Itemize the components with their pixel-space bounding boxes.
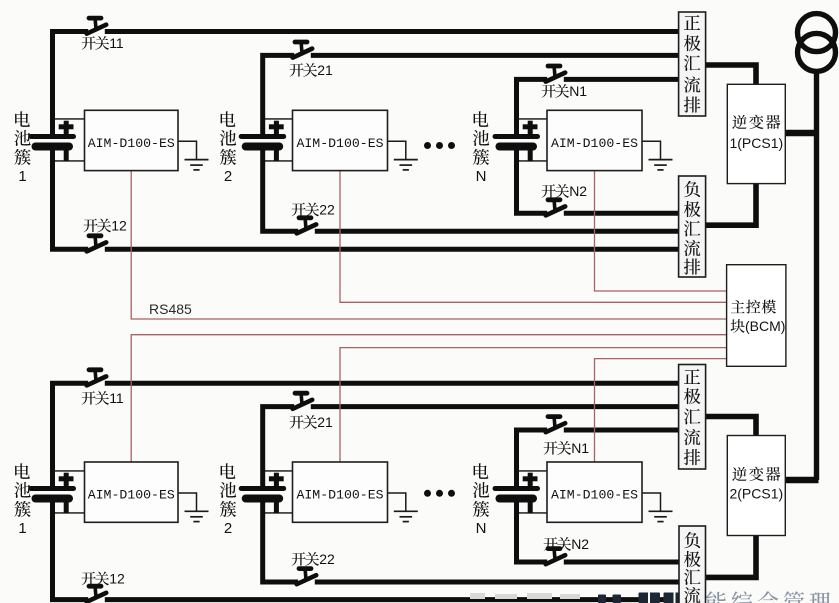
ellipsis dots (more clusters, bottom bank) (424, 490, 455, 497)
switch 开关N2 (bottom bank) (546, 549, 566, 565)
switch 开关N1 (bottom bank) (546, 417, 566, 433)
svg-text:11: 11 (109, 35, 124, 51)
wire negative rail battery cluster NA, 开关N2 row to 负极汇流排 (517, 148, 679, 213)
switch 开关21 (bottom bank) (293, 393, 313, 409)
svg-text:11: 11 (109, 390, 124, 406)
svg-text:AIM-D100-ES: AIM-D100-ES (88, 488, 175, 503)
switch 开关22 (bottom bank) (297, 569, 317, 585)
insulation monitor U2B AIM-D100-ES (293, 462, 388, 522)
battery 电池簇2B (241, 471, 295, 513)
svg-text:N1: N1 (571, 440, 589, 456)
wire positive rail battery cluster 2A, 开关21 row to 正极汇流排 (263, 55, 679, 136)
svg-text:2: 2 (224, 520, 232, 537)
battery 电池簇1B (31, 471, 85, 513)
svg-text:12: 12 (109, 571, 125, 587)
ground (AIM 2B) (387, 493, 418, 522)
label 电池簇2 (bottom bank) (220, 463, 236, 537)
grid transformer (two-winding symbol) (798, 14, 836, 72)
wire 逆变器1 AC output to grid riser (785, 130, 817, 136)
wire negative rail battery cluster 2A, 开关22 row to 负极汇流排 (263, 148, 679, 231)
RS485 wire AIM-D100-ES NA to BCM (595, 171, 727, 291)
svg-text:22: 22 (319, 551, 335, 567)
wire positive rail battery cluster 1A, 开关11 row to 正极汇流排 (53, 32, 679, 137)
wire 逆变器2 AC output to grid riser (785, 477, 819, 483)
svg-text:N1: N1 (569, 83, 587, 99)
wire negative rail battery cluster NB, lower 开关N2 row to 负极汇流排 (517, 500, 679, 562)
switch 开关22 (top bank) (297, 218, 317, 234)
svg-text:1: 1 (18, 520, 26, 537)
svg-text:N: N (476, 168, 487, 185)
label 开关11 (bottom bank) (82, 390, 124, 406)
wire negative rail battery cluster 1B, lower 开关12 row to 负极汇流排 (53, 500, 679, 599)
switch 开关11 (bottom bank) (87, 370, 107, 386)
wire positive rail battery cluster NB, lower 开关N1 row to 正极汇流排 (517, 430, 679, 489)
wire positive rail battery cluster NA, 开关N1 row to 正极汇流排 (517, 79, 679, 136)
ground (AIM 1B) (178, 493, 209, 522)
switch 开关21 (top bank) (293, 42, 313, 58)
wire 逆变器1 output to 负极汇流排A (706, 183, 756, 225)
battery 电池簇1A (31, 119, 85, 161)
svg-text:AIM-D100-ES: AIM-D100-ES (296, 488, 383, 503)
RS485 wire AIM-D100-ES NB to BCM (595, 359, 727, 462)
label 开关N2 (top bank) (542, 183, 588, 199)
svg-text:RS485: RS485 (149, 301, 192, 317)
svg-text:AIM-D100-ES: AIM-D100-ES (88, 136, 175, 151)
label 电池簇2 (top bank) (220, 111, 236, 185)
label 电池簇1 (top bank) (14, 111, 30, 185)
insulation monitor U1B AIM-D100-ES (85, 462, 179, 522)
label 开关22 (top bank) (292, 202, 335, 218)
master control module 主控模块(BCM) (727, 265, 786, 367)
ground (AIM 1A) (178, 141, 209, 170)
wire 逆变器2 output to 负极汇流排B (706, 535, 757, 577)
svg-text:21: 21 (317, 62, 333, 78)
wire positive rail battery cluster 2B, lower 开关21 row to 正极汇流排 (263, 407, 679, 489)
watermark faint marks (470, 593, 580, 599)
label 开关N1 (top bank) (542, 83, 588, 99)
switch 开关N2 (top bank) (546, 200, 566, 216)
inverter 逆变器1(PCS1) (727, 84, 785, 183)
ground (AIM NB) (642, 493, 673, 522)
switch 开关N1 (top bank) (546, 66, 566, 82)
RS485 wire AIM-D100-ES 2B to BCM (340, 348, 727, 462)
watermark 储能综合管理 (clipped) (679, 591, 830, 603)
label 开关22 (bottom bank) (292, 551, 335, 567)
svg-text:2(PCS1): 2(PCS1) (729, 485, 783, 501)
svg-text:2: 2 (224, 168, 232, 185)
label 电池簇N (top bank) (473, 111, 489, 185)
switch 开关12 (top bank) (87, 236, 107, 252)
switch 开关12 (bottom bank) (87, 586, 107, 602)
label 电池簇N (bottom bank) (473, 463, 489, 537)
RS485 wire AIM-D100-ES 1A to BCM (131, 171, 726, 319)
svg-text:AIM-D100-ES: AIM-D100-ES (296, 136, 383, 151)
switch 开关11 (top bank) (87, 18, 107, 34)
label 开关12 (top bank) (84, 218, 127, 234)
svg-text:12: 12 (111, 218, 127, 234)
svg-text:(BCM): (BCM) (745, 318, 785, 334)
label 开关12 (bottom bank) (82, 571, 125, 587)
insulation monitor U1A AIM-D100-ES (85, 110, 179, 170)
svg-text:1: 1 (18, 168, 26, 185)
inverter 逆变器2(PCS1) (727, 436, 785, 536)
insulation monitor U2A AIM-D100-ES (293, 110, 388, 170)
battery 电池簇NA (495, 119, 549, 161)
battery 电池簇2A (241, 119, 295, 161)
busbar 正极汇流排 (bottom bank) (679, 365, 706, 470)
battery 电池簇NB (495, 471, 549, 513)
svg-text:N2: N2 (571, 536, 589, 552)
wire 正极汇流排B to 逆变器2 input (706, 417, 757, 437)
RS485 wire AIM-D100-ES 1B to BCM (131, 335, 726, 462)
label 开关N2 (bottom bank) (544, 536, 590, 552)
svg-text:21: 21 (317, 414, 333, 430)
ground (AIM 2A) (387, 141, 418, 170)
busbar 负极汇流排 (top bank) (679, 176, 706, 277)
svg-text:N2: N2 (569, 183, 587, 199)
ellipsis dots (more clusters, top bank) (424, 142, 455, 149)
label 开关N1 (bottom bank) (544, 440, 590, 456)
insulation monitor UNB AIM-D100-ES (547, 462, 642, 522)
label 电池簇1 (bottom bank) (14, 463, 30, 537)
svg-text:1(PCS1): 1(PCS1) (729, 135, 783, 151)
svg-text:N: N (476, 520, 487, 537)
RS485 wire AIM-D100-ES 2A to BCM (340, 171, 727, 303)
busbar 正极汇流排 (top bank) (679, 12, 706, 116)
wire 正极汇流排A to 逆变器1 input (706, 65, 757, 85)
wire positive rail battery cluster 1B, lower 开关11 row to 正极汇流排 (53, 383, 679, 488)
label 开关21 (bottom bank) (290, 414, 333, 430)
svg-text:AIM-D100-ES: AIM-D100-ES (551, 136, 638, 151)
label 开关11 (top bank) (82, 35, 124, 51)
svg-text:22: 22 (319, 202, 335, 218)
busbar 负极汇流排 (bottom bank) (679, 526, 706, 603)
watermark logo (clipped) (598, 593, 686, 603)
label 开关21 (top bank) (290, 62, 333, 78)
ground (AIM NA) (642, 141, 673, 170)
wire grid riser (transformer to both inverters) (814, 72, 819, 480)
wire negative rail battery cluster 2B, lower 开关22 row to 负极汇流排 (263, 500, 679, 582)
insulation monitor UNA AIM-D100-ES (547, 110, 642, 170)
wire negative rail battery cluster 1A, 开关12 row to 负极汇流排 (53, 148, 679, 249)
svg-text:AIM-D100-ES: AIM-D100-ES (551, 488, 638, 503)
